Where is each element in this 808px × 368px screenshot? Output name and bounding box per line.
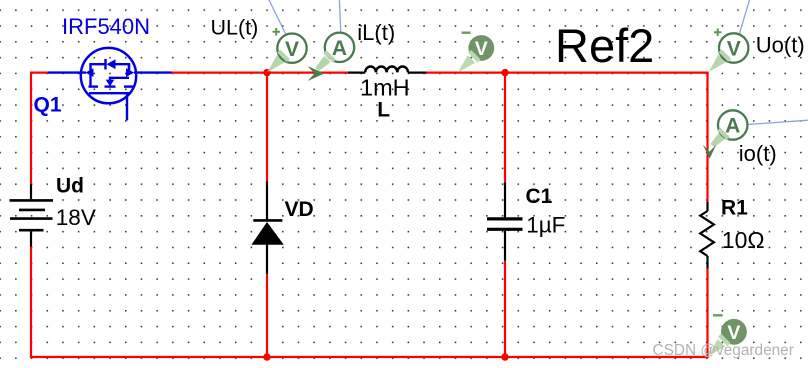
ammeter probe iL(t)	[308, 33, 355, 81]
probe wire blue UL	[269, 0, 286, 34]
svg-text:UL(t): UL(t)	[211, 16, 259, 40]
svg-text:Ref2: Ref2	[555, 19, 654, 72]
capacitor C1	[487, 183, 523, 261]
svg-text:IRF540N: IRF540N	[62, 14, 150, 39]
battery source Ud	[10, 184, 54, 247]
svg-text:V: V	[727, 38, 741, 61]
inductor L	[348, 66, 427, 72]
wire top rail red segments	[31, 71, 709, 73]
reference voltmeter probe top (filled)	[458, 33, 494, 73]
svg-text:iL(t): iL(t)	[357, 20, 395, 45]
diode VD	[253, 182, 282, 275]
resistor R1	[700, 202, 714, 269]
wire left rail	[30, 72, 32, 359]
svg-text:io(t): io(t)	[739, 141, 777, 166]
svg-text:A: A	[332, 37, 347, 60]
svg-text:V: V	[475, 38, 488, 60]
svg-text:VD: VD	[285, 198, 314, 221]
wire diode branch	[266, 73, 268, 357]
svg-text:1mH: 1mH	[360, 75, 410, 101]
svg-text:1µF: 1µF	[526, 212, 565, 237]
svg-text:V: V	[285, 38, 299, 61]
voltmeter probe UL(t)	[267, 28, 306, 72]
junction node bottom-right	[501, 353, 508, 360]
svg-text:C1: C1	[526, 185, 553, 208]
junction node top-left	[263, 69, 270, 76]
wire bottom rail	[30, 356, 709, 358]
svg-text:18V: 18V	[56, 205, 96, 230]
svg-text:L: L	[377, 99, 390, 122]
transistor Q1 MOSFET symbol	[48, 48, 172, 121]
svg-text:Q1: Q1	[34, 94, 62, 117]
svg-text:V: V	[727, 322, 740, 344]
probe wire blue iL	[339, 0, 340, 32]
svg-text:R1: R1	[721, 197, 748, 220]
wire right rail	[706, 73, 708, 359]
wire capacitor branch	[504, 73, 506, 357]
svg-text:CSDN @vegardener: CSDN @vegardener	[653, 342, 794, 359]
ammeter probe io(t)	[703, 110, 748, 158]
junction node top-right	[501, 69, 508, 76]
junction node bottom-left	[263, 353, 270, 360]
svg-text:A: A	[725, 115, 740, 138]
voltmeter probe Uo(t)	[709, 29, 749, 72]
probe wire blue Uo	[740, 0, 750, 33]
svg-text:10Ω: 10Ω	[722, 227, 765, 253]
svg-text:Ud: Ud	[56, 174, 84, 197]
probe wire blue io	[748, 120, 808, 124]
svg-text:Uo(t): Uo(t)	[756, 33, 805, 58]
reference voltmeter probe bottom (filled)	[708, 315, 747, 356]
